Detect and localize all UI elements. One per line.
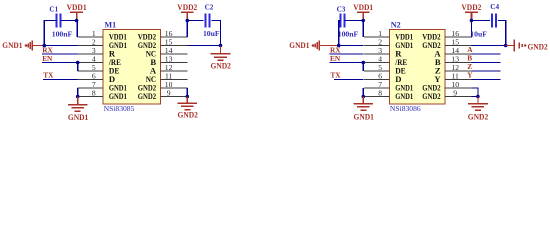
wire C3 to VDD1 junction [345,20,364,22]
wire GND1 to M1 pin2 [44,45,77,47]
junction C4 / pin15 ground node [504,44,508,48]
wire VDD1 junction down to M1 pin1 [76,21,79,38]
wire N2 pin9 to ground node [472,96,478,98]
wire M1 pin15 to GND2 junction [187,45,220,47]
junction EN branch to DE [76,61,80,65]
power port GND1 (earth ground) [353,97,374,122]
svg-text:C4: C4 [490,3,499,11]
svg-text:10uF: 10uF [470,29,487,38]
svg-text:GND1: GND1 [395,91,413,101]
svg-text:TX: TX [330,71,341,80]
svg-text:9: 9 [167,88,171,97]
power port GND1 (earth ground) [68,97,88,123]
svg-text:VDD2: VDD2 [177,3,197,12]
capacitor C2 10uF [203,3,220,38]
IC N2 pin numbers [378,29,459,98]
svg-text:9: 9 [453,88,457,97]
svg-text:GND1: GND1 [109,91,127,101]
IC N2 NSi83086 body [389,30,445,104]
svg-text:10uF: 10uF [203,29,220,38]
power port GND1 (bar-style ground pointing right) [2,40,44,50]
svg-text:NSi83086: NSi83086 [390,104,421,113]
svg-text:VDD1: VDD1 [353,3,373,12]
svg-text:GND2: GND2 [422,91,440,101]
IC M1 NSi83085 body [103,30,161,104]
IC N2 pin labels [394,32,441,102]
wire M1 pin16 up to VDD2 [186,21,188,38]
wire RX to M1 pin3 [42,53,78,55]
power port GND2 (earth ground) [177,97,198,120]
power port GND1 (bar-style ground pointing right) [289,40,338,50]
svg-text:GND2: GND2 [138,91,156,101]
IC N2 pins 1-8 (left side) and 16-9 (right side) [364,37,472,97]
power port VDD1 [67,3,87,21]
svg-text:GND2: GND2 [528,43,548,52]
junction VDD2 node [186,19,190,23]
wire net A from N2 pin14 [472,53,501,55]
svg-text:N2: N2 [391,20,401,29]
power port GND2 (earth ground) [468,97,488,122]
svg-text:EN: EN [42,54,53,63]
wire EN to N2 pin4 [330,62,364,64]
svg-text:C1: C1 [49,6,58,14]
wire TX to M1 pin6 [43,79,78,81]
svg-text:GND1: GND1 [354,113,374,122]
junction N2 pin7/pin8 ground node [362,95,366,99]
wire VDD1 junction down to N2 pin1 [362,21,364,38]
wire EN branch to N2 pin5 [362,63,364,72]
svg-text:100nF: 100nF [52,30,73,39]
svg-text:VDD2: VDD2 [461,3,481,12]
IC M1 pins 1-8 (left side) and 16-9 (right side) [78,37,188,97]
svg-text:EN: EN [330,54,341,63]
power port VDD1 [353,3,373,21]
IC M1 pin labels [108,32,157,102]
wire C4 to GND2 junction [498,21,506,46]
junction VDD1 node [361,19,365,23]
svg-text:GND1: GND1 [68,113,88,122]
junction GND1 / C1 / pin2 node [43,44,47,48]
wire VDD2 to C2 [187,20,203,22]
junction EN branch to DE [362,61,366,65]
svg-text:8: 8 [378,88,382,97]
junction VDD1 node [75,19,79,23]
junction N2 pin9/pin10 ground node [476,95,480,99]
svg-text:8: 8 [92,88,96,97]
power port GND2 (bar-style ground pointing left) [506,39,548,51]
wire VDD2 to C4 [471,20,490,22]
wire C3 to GND1 junction [339,21,341,46]
wire M1 pin7 down to pin8 node [77,88,79,97]
power port VDD2 [177,3,197,21]
svg-text:TX: TX [43,71,54,80]
svg-text:100nF: 100nF [338,30,359,39]
wire N2 pin15 to GND2 junction [472,45,506,47]
wire M1 pin10 to ground bend [186,88,188,97]
wire C2 to GND2 junction [212,21,221,46]
svg-text:VDD1: VDD1 [67,3,87,12]
wire RX to N2 pin3 [330,53,364,55]
capacitor C3 100nF [337,5,359,38]
svg-text:C3: C3 [337,5,346,13]
IC M1 pin numbers [92,29,173,98]
svg-text:Y: Y [467,70,473,79]
junction GND1 / C3 / pin2 node [337,44,341,48]
wire net B from N2 pin13 [472,62,501,64]
wire GND1 to N2 pin2 [339,45,364,47]
wire N2 pin7 down to pin8 node [362,88,364,97]
wire EN to M1 pin4 [42,62,78,64]
wire TX to N2 pin6 [334,79,363,81]
svg-text:GND2: GND2 [178,110,198,119]
capacitor C1 100nF [49,6,72,39]
power port VDD2 [461,3,481,21]
wire C1 to VDD1 junction [61,20,77,22]
wire net Y from N2 pin11 [472,79,501,81]
capacitor C4 10uF [470,3,499,38]
svg-text:GND1: GND1 [289,41,309,50]
junction C2 / pin15 ground node [219,44,223,48]
wire EN branch to M1 pin5 [77,63,79,72]
junction M1 pin7/pin8 ground node [76,95,80,99]
svg-text:GND2: GND2 [468,113,488,122]
junction M1 pin9/pin10 ground node [186,95,190,99]
svg-text:GND2: GND2 [211,61,231,70]
wire N2 pin16 up to VDD2 [470,21,472,38]
wire net Z from N2 pin12 [472,70,501,72]
junction VDD2 node [470,19,474,23]
svg-text:GND1: GND1 [2,41,22,50]
svg-text:M1: M1 [105,20,117,29]
wire N2 pin10 to ground bend [472,88,478,97]
power port GND2 (earth ground) [211,46,231,71]
wire C1 to GND1 junction [44,21,56,46]
svg-text:C2: C2 [205,3,214,11]
svg-text:NSi83085: NSi83085 [104,104,135,113]
